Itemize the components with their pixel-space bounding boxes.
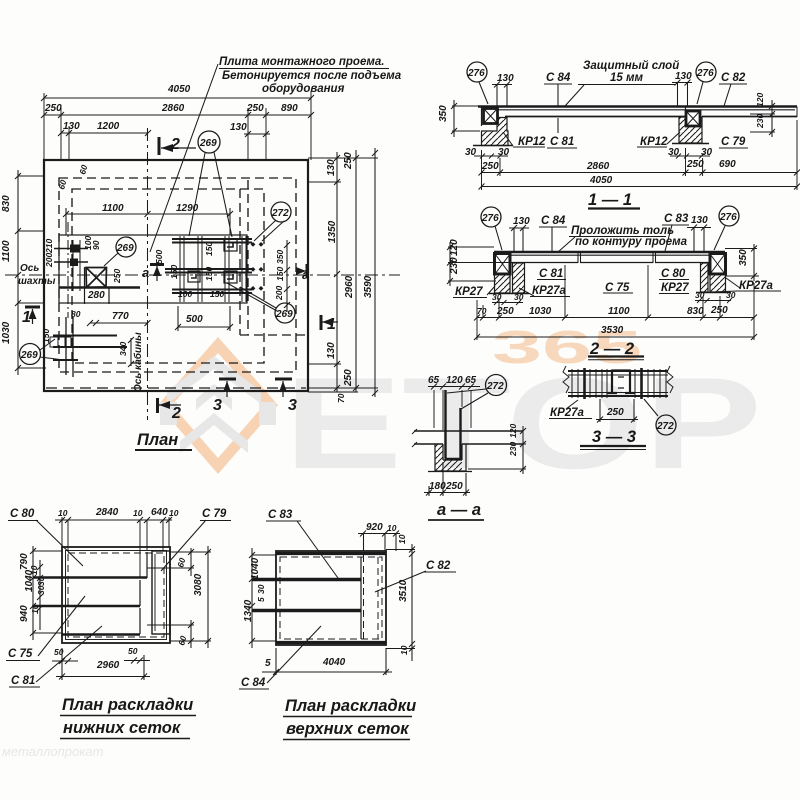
svg-text:Защитный слой: Защитный слой xyxy=(583,60,679,72)
leader from plita text xyxy=(150,64,389,252)
svg-text:С 83: С 83 xyxy=(268,509,293,521)
svg-text:250: 250 xyxy=(112,269,122,284)
C81 underline + leader xyxy=(547,118,577,148)
extensions 2-2 xyxy=(477,265,754,340)
svg-text:План раскладки: План раскладки xyxy=(285,697,416,715)
dim 250/2860/250/890 line xyxy=(41,112,314,118)
svg-text:1100: 1100 xyxy=(1,240,12,262)
svg-text:КР27а: КР27а xyxy=(739,280,774,292)
svg-text:830: 830 xyxy=(1,195,12,212)
svg-text:770: 770 xyxy=(112,311,129,322)
section marker 3 left xyxy=(219,378,236,381)
C79 underline xyxy=(719,147,748,149)
svg-text:65: 65 xyxy=(428,375,440,386)
section marker 1 right xyxy=(320,315,323,330)
svg-text:30: 30 xyxy=(726,290,736,300)
svg-text:130: 130 xyxy=(326,159,337,176)
dim 350 right xyxy=(725,244,759,281)
dim 500 bottom xyxy=(175,306,233,331)
svg-text:276: 276 xyxy=(719,212,737,223)
thick top and bottom bands xyxy=(276,552,386,555)
rebar square right 1-1 xyxy=(686,111,700,126)
right dim line 3 xyxy=(372,148,378,397)
svg-text:а — а: а — а xyxy=(437,501,481,519)
svg-text:3080: 3080 xyxy=(193,573,204,596)
rebar square left 1-1 xyxy=(484,109,498,124)
svg-text:90: 90 xyxy=(91,240,101,250)
svg-text:10: 10 xyxy=(58,508,68,518)
svg-text:30: 30 xyxy=(465,147,477,158)
svg-text:по контуру проема: по контуру проема xyxy=(575,236,688,248)
svg-text:10: 10 xyxy=(387,523,397,533)
slab top lines 2-2 xyxy=(494,251,725,253)
bottom chain 2-2 xyxy=(474,315,757,321)
svg-text:130: 130 xyxy=(326,342,337,359)
svg-text:С 82: С 82 xyxy=(721,72,746,84)
left dim lines xyxy=(30,546,36,640)
left wall base xyxy=(473,145,513,147)
svg-text:150: 150 xyxy=(204,267,214,281)
svg-text:2840: 2840 xyxy=(95,507,119,518)
svg-text:2860: 2860 xyxy=(161,103,185,114)
zashitny sloy underline + leader xyxy=(565,85,676,107)
svg-text:690: 690 xyxy=(719,159,736,170)
svg-text:130: 130 xyxy=(63,121,80,132)
svg-text:10: 10 xyxy=(30,604,40,614)
svg-text:1: 1 xyxy=(327,316,336,333)
tol note underline + leader xyxy=(558,237,666,253)
svg-text:60: 60 xyxy=(175,557,187,569)
svg-text:С 79: С 79 xyxy=(721,136,746,148)
svg-text:1200: 1200 xyxy=(97,121,120,132)
dim 130/1200 line xyxy=(58,130,151,136)
small squares with hooks xyxy=(224,239,237,251)
labels leaders xyxy=(266,521,338,578)
svg-text:200: 200 xyxy=(44,253,54,268)
svg-text:1030: 1030 xyxy=(529,306,552,317)
inner verticals xyxy=(360,557,362,639)
svg-text:План раскладки: План раскладки xyxy=(62,696,193,714)
recess outline xyxy=(443,444,462,460)
dim 230/120 right edge xyxy=(750,100,775,137)
svg-text:130: 130 xyxy=(675,71,692,82)
svg-text:КР27а: КР27а xyxy=(550,407,585,419)
svg-text:250: 250 xyxy=(44,103,62,114)
svg-text:2: 2 xyxy=(171,405,181,422)
svg-text:30: 30 xyxy=(256,584,266,594)
svg-text:2960: 2960 xyxy=(344,275,355,299)
svg-text:150: 150 xyxy=(169,265,179,279)
shaft axis (horizontal dash-dot) xyxy=(5,274,400,276)
left mini cluster bars xyxy=(54,249,88,263)
bottom dim 5/4040 xyxy=(262,648,392,675)
svg-text:10: 10 xyxy=(133,508,143,518)
right extension lines xyxy=(308,158,378,392)
svg-text:70: 70 xyxy=(336,393,346,403)
svg-text:5: 5 xyxy=(256,597,266,602)
svg-text:С 83: С 83 xyxy=(664,213,689,225)
svg-text:120: 120 xyxy=(449,239,460,256)
svg-text:272: 272 xyxy=(486,381,504,392)
svg-text:350: 350 xyxy=(275,250,285,264)
top dim 10/2840/10/640/10 xyxy=(55,517,172,523)
section marker 3 right xyxy=(275,378,292,381)
inner right small dim line xyxy=(284,240,290,312)
leaders from 269 top xyxy=(189,152,232,237)
svg-text:230: 230 xyxy=(508,442,518,457)
svg-text:2860: 2860 xyxy=(586,161,610,172)
inner band thick lines xyxy=(252,578,361,581)
C83 2-2 underline + leader xyxy=(662,225,689,251)
ladder rails xyxy=(568,371,668,396)
plan outer rectangle xyxy=(44,160,308,391)
left dim line xyxy=(249,548,276,648)
watermark: orange digits 365 xyxy=(492,321,642,373)
svg-text:4050: 4050 xyxy=(167,84,191,95)
bottom 50 dims xyxy=(52,658,150,665)
svg-text:металлопрокат: металлопрокат xyxy=(2,744,104,759)
dim 4050 line xyxy=(41,95,314,101)
plan circles and markers xyxy=(20,64,390,413)
svg-text:2: 2 xyxy=(170,136,180,153)
svg-text:940: 940 xyxy=(19,605,30,622)
cabin axis (vertical dash-dot) xyxy=(147,128,149,420)
svg-text:КР27а: КР27а xyxy=(532,285,567,297)
right dim line 1 xyxy=(334,152,340,392)
svg-text:С 81: С 81 xyxy=(11,675,35,687)
dim 120/230 right a-a xyxy=(466,426,526,474)
svg-text:50: 50 xyxy=(128,646,138,656)
svg-text:нижних сеток: нижних сеток xyxy=(63,719,182,737)
slab lines a-a xyxy=(414,430,523,432)
right wall 1-1 xyxy=(679,117,702,143)
break squiggles xyxy=(563,366,673,393)
30-30 ticks left xyxy=(474,154,508,159)
svg-text:276: 276 xyxy=(481,213,499,224)
dashed rect B xyxy=(72,189,264,363)
svg-text:шахты: шахты xyxy=(18,276,56,287)
svg-text:3 — 3: 3 — 3 xyxy=(592,428,636,446)
dim 1100/1290 xyxy=(63,208,233,235)
middle channel xyxy=(607,370,635,394)
svg-text:Плита монтажного проема.: Плита монтажного проема. xyxy=(219,56,384,68)
svg-text:КР12: КР12 xyxy=(518,136,546,148)
svg-text:65: 65 xyxy=(465,375,477,386)
svg-text:130: 130 xyxy=(230,122,247,133)
dim 2960 bottom xyxy=(56,648,150,680)
svg-text:200: 200 xyxy=(274,286,284,301)
svg-text:120: 120 xyxy=(508,424,518,438)
svg-text:250: 250 xyxy=(343,152,354,170)
circle 276 R2 + leader xyxy=(719,206,739,226)
svg-text:890: 890 xyxy=(281,103,298,114)
section marker a right xyxy=(306,264,309,278)
wall hatch a-a xyxy=(435,444,462,471)
left dim line xyxy=(15,170,21,375)
mid cluster horizontal heavy bars xyxy=(165,239,252,293)
svg-text:269: 269 xyxy=(20,350,38,361)
left extension lines xyxy=(18,176,46,368)
svg-text:150: 150 xyxy=(210,289,224,299)
left column square 2-2 xyxy=(495,254,511,275)
outer rect double border xyxy=(62,547,170,643)
svg-text:1 — 1: 1 — 1 xyxy=(588,191,632,209)
circle 269 c xyxy=(20,344,41,365)
thick stirrups xyxy=(585,368,642,399)
watermark: orange logo chevrons xyxy=(158,337,278,474)
dim 130 left top xyxy=(492,82,512,107)
plan texts xyxy=(1,56,402,449)
svg-text:3590: 3590 xyxy=(363,275,374,298)
circle 269 top xyxy=(198,131,220,153)
svg-text:С 81: С 81 xyxy=(539,268,563,280)
dim 130 line right xyxy=(244,131,270,137)
band heavy divider xyxy=(59,286,140,288)
svg-text:С 75: С 75 xyxy=(8,648,33,660)
svg-text:350: 350 xyxy=(438,105,449,122)
C79 strip xyxy=(152,551,170,634)
svg-text:230: 230 xyxy=(449,257,460,275)
svg-text:250: 250 xyxy=(686,159,704,170)
svg-text:3: 3 xyxy=(288,397,297,414)
svg-text:С 84: С 84 xyxy=(241,677,266,689)
C82 strip dashed verticals xyxy=(364,555,379,640)
slab bottom segments xyxy=(511,262,709,264)
svg-text:250: 250 xyxy=(481,161,499,172)
svg-text:С 79: С 79 xyxy=(202,508,227,520)
mesh C81 band xyxy=(139,608,141,634)
svg-text:210: 210 xyxy=(44,239,54,254)
svg-text:1350: 1350 xyxy=(327,220,338,243)
svg-text:130: 130 xyxy=(497,73,514,84)
outer rect xyxy=(276,551,386,645)
svg-text:3: 3 xyxy=(213,397,222,414)
svg-text:500: 500 xyxy=(154,250,164,264)
dashed line above bottom edge xyxy=(46,387,306,389)
dim 120/230 left xyxy=(447,242,512,286)
svg-text:250: 250 xyxy=(246,103,264,114)
circle 272 plan xyxy=(271,202,291,222)
svg-text:130: 130 xyxy=(513,216,530,227)
dim 3530 xyxy=(474,334,757,340)
svg-text:250: 250 xyxy=(343,369,354,387)
svg-text:КР12: КР12 xyxy=(640,136,668,148)
watermark: big light gray letters ETOR xyxy=(284,350,762,496)
svg-text:15 мм: 15 мм xyxy=(610,72,643,84)
right dims 60/3080/60 xyxy=(188,548,194,576)
svg-text:верхних сеток: верхних сеток xyxy=(286,720,410,738)
svg-text:120: 120 xyxy=(446,375,463,386)
local axis vertical in left cluster xyxy=(67,222,69,318)
svg-text:1030: 1030 xyxy=(1,321,12,344)
KR12 left underline + leader xyxy=(503,132,545,147)
right dim 10/3510/10 xyxy=(386,544,415,661)
svg-text:250: 250 xyxy=(606,407,624,418)
svg-text:30: 30 xyxy=(514,292,524,302)
titles underlines xyxy=(60,715,196,717)
svg-text:2960: 2960 xyxy=(96,660,120,671)
right wall base xyxy=(672,143,709,145)
C82 underline + leader xyxy=(719,84,747,106)
circle 276 R1 + leader xyxy=(696,62,716,82)
svg-text:250: 250 xyxy=(710,305,728,316)
circle 276 L1 + leader xyxy=(467,62,487,82)
svg-text:2 — 2: 2 — 2 xyxy=(589,340,634,358)
C84 2-2 underline + leader xyxy=(539,227,567,251)
svg-text:280: 280 xyxy=(87,290,105,301)
mesh C75 band xyxy=(139,580,141,606)
svg-text:1040: 1040 xyxy=(24,569,35,592)
extension lines xyxy=(482,120,798,190)
break ticks at left end xyxy=(412,429,417,447)
svg-text:250: 250 xyxy=(496,306,514,317)
wall outline a-a xyxy=(435,444,466,471)
svg-text:150: 150 xyxy=(41,329,51,343)
svg-text:Бетонируется после подъема: Бетонируется после подъема xyxy=(222,70,402,82)
svg-text:оборудования: оборудования xyxy=(262,83,345,95)
svg-text:30: 30 xyxy=(668,147,680,158)
svg-text:1340: 1340 xyxy=(243,599,254,622)
svg-text:130: 130 xyxy=(691,215,708,226)
C84 underline + leader xyxy=(544,84,572,106)
slab bottom lines xyxy=(505,116,685,118)
svg-text:5: 5 xyxy=(265,658,271,669)
dim 4050 line xyxy=(479,184,800,190)
circle 272 3-3 + leader xyxy=(656,415,676,435)
section marker 2 bottom xyxy=(156,398,159,413)
svg-text:1: 1 xyxy=(22,309,31,326)
svg-text:150: 150 xyxy=(204,242,214,256)
dashed inner rect xyxy=(68,553,164,637)
svg-text:10: 10 xyxy=(399,645,409,655)
svg-text:70: 70 xyxy=(477,306,487,316)
svg-text:Ось: Ось xyxy=(20,263,39,274)
svg-text:60: 60 xyxy=(56,179,68,191)
svg-text:30: 30 xyxy=(701,147,713,158)
svg-text:150: 150 xyxy=(275,267,285,281)
svg-text:С 81: С 81 xyxy=(550,136,574,148)
svg-text:План: План xyxy=(137,431,178,449)
circle 272 a-a + leaders xyxy=(486,375,507,396)
labels underlines + leaders xyxy=(453,278,781,298)
svg-text:а: а xyxy=(302,267,309,282)
svg-text:60: 60 xyxy=(77,164,89,176)
section marker 2 top xyxy=(158,137,161,155)
dim 340 small xyxy=(128,337,134,367)
svg-text:500: 500 xyxy=(186,314,203,325)
svg-text:30: 30 xyxy=(492,292,502,302)
wall base a-a xyxy=(428,471,472,473)
titles underlines xyxy=(283,716,412,718)
svg-text:С 82: С 82 xyxy=(426,560,451,572)
top dim 920/10 xyxy=(358,531,400,552)
svg-text:С 84: С 84 xyxy=(541,215,566,227)
svg-text:250: 250 xyxy=(445,481,463,492)
svg-text:КР27: КР27 xyxy=(661,282,689,294)
svg-text:100: 100 xyxy=(178,289,192,299)
svg-text:С 75: С 75 xyxy=(605,282,630,294)
30-30 ticks right xyxy=(670,154,710,159)
svg-text:С 84: С 84 xyxy=(546,72,571,84)
right column square 2-2 xyxy=(710,254,726,275)
svg-text:276: 276 xyxy=(696,68,714,79)
circle 276 L2 + leader xyxy=(481,207,501,227)
svg-text:3530: 3530 xyxy=(601,325,624,336)
svg-text:10: 10 xyxy=(169,508,179,518)
svg-text:30: 30 xyxy=(36,576,46,586)
svg-text:269: 269 xyxy=(116,243,134,254)
left wall outline + hatch xyxy=(495,274,511,293)
dim 130 right 2-2 xyxy=(687,225,711,253)
dim 65/120/65 xyxy=(428,384,480,390)
svg-text:1290: 1290 xyxy=(176,203,199,214)
svg-text:1100: 1100 xyxy=(608,306,630,317)
svg-text:272: 272 xyxy=(271,208,289,219)
svg-text:120: 120 xyxy=(755,93,765,107)
chain dim line 250/2860/250/690 xyxy=(479,170,800,176)
svg-text:60: 60 xyxy=(176,635,188,647)
svg-text:3510: 3510 xyxy=(398,579,409,602)
svg-text:269: 269 xyxy=(199,138,217,149)
svg-text:1100: 1100 xyxy=(102,203,124,214)
inner band rectangle xyxy=(59,235,247,303)
svg-text:340: 340 xyxy=(118,342,128,356)
svg-text:272: 272 xyxy=(656,421,674,432)
svg-text:а: а xyxy=(142,265,149,280)
svg-text:КР27: КР27 xyxy=(455,286,483,298)
right wall outline + hatch xyxy=(710,274,726,292)
svg-text:276: 276 xyxy=(467,68,485,79)
dim 180/250 bottom a-a xyxy=(424,462,470,496)
svg-text:920: 920 xyxy=(366,522,383,533)
dim 770 xyxy=(87,320,151,326)
title 2-2 underline xyxy=(588,355,644,357)
diamond dots pairs xyxy=(251,242,264,291)
ladder verticals xyxy=(572,369,666,398)
svg-text:30: 30 xyxy=(498,147,510,158)
title Plan underline xyxy=(135,449,192,451)
left wall 1-1 xyxy=(482,118,509,146)
circle 269 a xyxy=(116,237,136,257)
30 ticks 2-2 xyxy=(492,298,732,305)
svg-text:4050: 4050 xyxy=(589,175,613,186)
svg-text:С 80: С 80 xyxy=(661,268,686,280)
dim 130 left 2-2 xyxy=(509,225,529,252)
svg-text:180: 180 xyxy=(429,481,446,492)
svg-text:С 80: С 80 xyxy=(10,508,35,520)
svg-text:30: 30 xyxy=(36,585,46,595)
svg-text:4040: 4040 xyxy=(322,657,346,668)
lower-left cluster xyxy=(53,336,127,361)
svg-text:80: 80 xyxy=(71,309,81,319)
dim 250 3-3 xyxy=(596,399,638,423)
top extension lines xyxy=(44,91,311,160)
section marker 1 left xyxy=(25,306,40,309)
slab top lines xyxy=(478,105,797,107)
title 1-1 underline xyxy=(588,207,640,209)
U bar xyxy=(445,390,462,459)
KR27a underline + leader xyxy=(549,400,592,419)
svg-text:350: 350 xyxy=(738,249,749,266)
svg-text:269: 269 xyxy=(275,309,293,320)
section marker a left xyxy=(150,263,164,266)
svg-text:10: 10 xyxy=(397,534,407,544)
svg-text:640: 640 xyxy=(151,507,168,518)
dashed rect A xyxy=(59,178,296,372)
dim 350 left xyxy=(451,100,480,137)
square 280 with diagonals xyxy=(86,268,107,288)
labels leaders xyxy=(8,520,83,566)
